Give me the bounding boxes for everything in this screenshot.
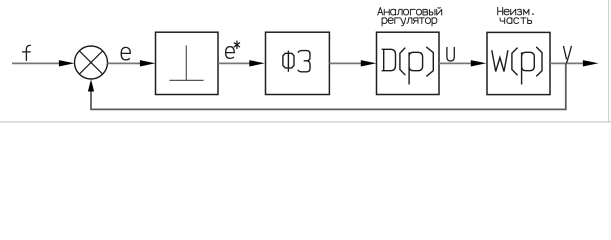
label Аналоговый (line 1) <box>378 8 442 16</box>
sampler symbol axis <box>169 79 203 81</box>
wire output y <box>550 62 584 64</box>
frame bottom border <box>0 121 611 123</box>
wire ФЗ to D(p) <box>329 62 361 64</box>
label Неизм. (line 1) <box>498 7 529 15</box>
node u label <box>447 47 454 61</box>
block ФЗ (zero-order hold) <box>266 32 330 94</box>
label ФЗ <box>283 51 310 72</box>
wire u (D(p) to W(p)) <box>439 62 472 64</box>
node e* label <box>226 41 240 59</box>
feedback wire: riser into junction <box>90 91 92 110</box>
label D(p) <box>382 47 434 85</box>
feedback wire: horizontal run <box>90 108 567 110</box>
label W(p) <box>492 47 542 85</box>
block sampler (impulse element) <box>156 32 219 94</box>
label регулятор (line 2) <box>382 18 437 26</box>
node f label <box>23 45 31 60</box>
label часть (line 2) <box>500 18 532 24</box>
wire e* (sampler to ФЗ) <box>218 62 250 64</box>
sampler symbol impulse <box>185 45 187 80</box>
node e label <box>121 47 130 60</box>
block W(p) plant <box>487 32 550 94</box>
feedback wire: tap down from output <box>565 63 567 109</box>
frame right border <box>608 0 610 122</box>
block D(p) analog controller <box>377 32 440 94</box>
summing junction comparator <box>75 46 108 79</box>
node y label <box>563 46 571 63</box>
wire e (junction to sampler) <box>108 62 141 64</box>
wire input f <box>12 62 60 64</box>
